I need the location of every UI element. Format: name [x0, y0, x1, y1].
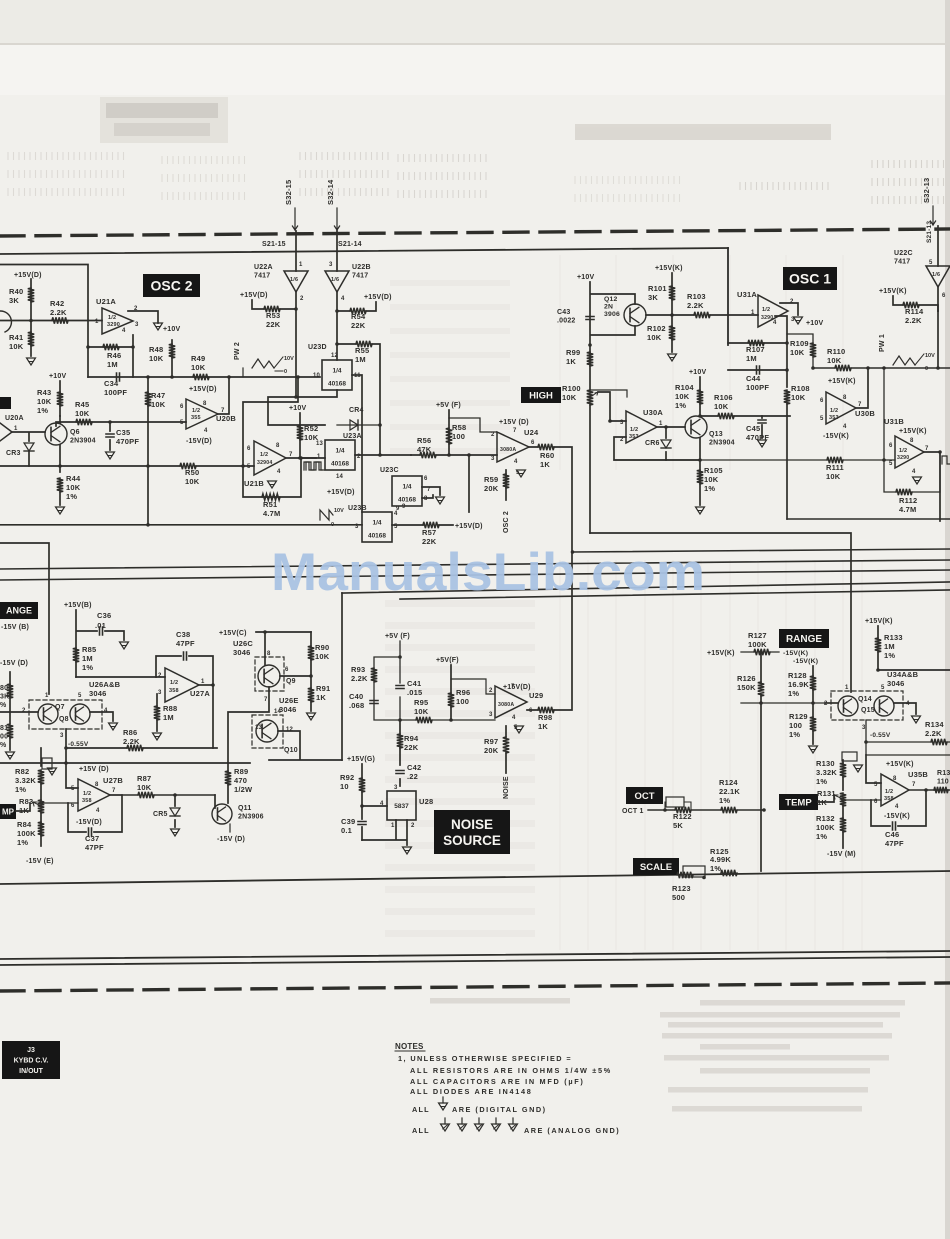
resistor R98: [538, 707, 554, 713]
svg-text:7417: 7417: [352, 273, 368, 280]
svg-text:CR3: CR3: [6, 450, 21, 457]
svg-text:3K: 3K: [9, 296, 19, 305]
svg-text:R90: R90: [315, 643, 329, 652]
resistor R124: [721, 807, 737, 813]
svg-text:R123: R123: [672, 884, 691, 893]
wire U35B pin6 node: [843, 799, 881, 801]
svg-text:R134: R134: [925, 720, 944, 729]
wire R100 wiper to U30A: [598, 392, 626, 421]
long bus wire L5: [400, 590, 950, 599]
op-amp U21B: [254, 441, 286, 475]
svg-text:1/2W: 1/2W: [234, 785, 253, 794]
svg-text:6: 6: [529, 708, 533, 714]
svg-text:C41: C41: [407, 679, 421, 688]
svg-text:+10V: +10V: [577, 274, 594, 281]
wire U30A out to Q13 base: [657, 426, 685, 428]
svg-text:2: 2: [790, 299, 794, 305]
op-amp U30A: [626, 411, 657, 443]
svg-text:2.2K: 2.2K: [687, 301, 704, 310]
svg-text:3080A: 3080A: [498, 702, 514, 708]
svg-text:C34: C34: [104, 379, 119, 388]
svg-text:2: 2: [620, 437, 624, 443]
op-amp U35B: [881, 774, 909, 806]
wire +5V(F) to U29 pin2: [451, 679, 495, 694]
ground below C35: [106, 452, 115, 459]
svg-text:1%: 1%: [66, 492, 77, 501]
svg-text:1/2: 1/2: [762, 307, 770, 313]
svg-text:+15V(D): +15V(D): [189, 386, 217, 393]
resistor R128: [812, 666, 814, 703]
trimpot slider box R83: [42, 758, 52, 769]
svg-text:ARE (ANALOG GND): ARE (ANALOG GND): [524, 1126, 620, 1135]
svg-text:13: 13: [255, 725, 263, 731]
wire Q9 pin6 to R90R91: [280, 675, 311, 677]
svg-text:R87: R87: [137, 774, 151, 783]
svg-text:OSC 2: OSC 2: [503, 511, 510, 533]
svg-text:C44: C44: [746, 374, 761, 383]
svg-text:U28: U28: [419, 797, 433, 806]
svg-text:R130: R130: [816, 759, 835, 768]
svg-text:10K: 10K: [414, 707, 429, 716]
wire Q14Q15 emitter down: [866, 720, 950, 755]
svg-text:R84: R84: [17, 820, 32, 829]
svg-text:4: 4: [122, 328, 126, 334]
svg-text:10K: 10K: [827, 356, 842, 365]
op-amp U24: [497, 432, 529, 462]
svg-text:U27A: U27A: [190, 689, 210, 698]
svg-text:22K: 22K: [351, 321, 366, 330]
IC U23A: [325, 440, 355, 470]
wire R100 bottom to line A: [590, 533, 851, 692]
svg-text:ALL: ALL: [412, 1126, 430, 1135]
wire Q15 pin4 to gnd: [894, 703, 916, 714]
wire oct row: [648, 809, 764, 811]
svg-text:1: 1: [201, 679, 205, 685]
svg-text:47PF: 47PF: [176, 639, 195, 648]
svg-text:R88: R88: [163, 704, 177, 713]
svg-text:R100: R100: [562, 384, 581, 393]
svg-text:1/6: 1/6: [932, 272, 940, 278]
svg-text:CR6: CR6: [645, 440, 660, 447]
svg-text:NOISE: NOISE: [451, 817, 493, 832]
resistor R52: [299, 413, 301, 458]
transistor Q7: [38, 704, 58, 724]
svg-text:100K: 100K: [17, 829, 36, 838]
resistor R85: [73, 648, 79, 662]
svg-text:+15V(K): +15V(K): [886, 761, 914, 768]
svg-text:SOURCE: SOURCE: [443, 833, 501, 848]
svg-text:U26E: U26E: [279, 696, 299, 705]
label box TEMP right: [779, 794, 818, 810]
svg-text:%: %: [0, 742, 7, 749]
svg-text:MP: MP: [2, 807, 15, 816]
svg-text:U34A&B: U34A&B: [887, 670, 919, 679]
svg-text:R103: R103: [687, 292, 706, 301]
svg-text:R124: R124: [719, 778, 738, 787]
svg-text:1/2: 1/2: [170, 680, 178, 686]
svg-text:U27B: U27B: [103, 776, 123, 785]
capacitor C42: [396, 771, 404, 774]
svg-text:13: 13: [316, 441, 324, 447]
svg-text:U23B: U23B: [348, 505, 367, 512]
svg-text:4: 4: [843, 424, 847, 430]
wire C34 row: [88, 376, 148, 378]
svg-text:100: 100: [456, 697, 469, 706]
svg-text:R41: R41: [9, 333, 23, 342]
svg-text:10K: 10K: [137, 783, 152, 792]
triangle wave glyph left of U23D: [252, 359, 274, 368]
ground at U23C: [436, 497, 445, 504]
svg-text:R58: R58: [452, 423, 466, 432]
svg-text:10K: 10K: [714, 402, 729, 411]
wire to U24 pin2: [449, 418, 497, 432]
svg-text:4: 4: [912, 469, 916, 475]
svg-text:R85: R85: [82, 645, 96, 654]
svg-text:10V: 10V: [334, 508, 344, 514]
svg-text:1%: 1%: [788, 689, 799, 698]
capacitor C43: [586, 317, 594, 320]
svg-text:8: 8: [424, 496, 428, 502]
resistor R103: [694, 312, 710, 318]
svg-text:1%: 1%: [37, 406, 48, 415]
resistor R95: [416, 717, 432, 723]
svg-text:OSC 1: OSC 1: [789, 271, 831, 287]
svg-text:1%: 1%: [816, 832, 827, 841]
svg-text:358: 358: [884, 796, 894, 802]
resistor R101: [669, 286, 675, 300]
svg-text:5: 5: [881, 685, 885, 691]
op-amp U31B: [895, 436, 924, 468]
svg-text:6: 6: [247, 446, 251, 452]
diode CR5: [174, 795, 176, 827]
svg-text:U29: U29: [529, 691, 543, 700]
svg-text:-15V (D): -15V (D): [0, 660, 28, 667]
svg-text:2: 2: [489, 688, 493, 694]
svg-text:22.1K: 22.1K: [719, 787, 740, 796]
svg-text:.0022: .0022: [557, 318, 576, 325]
svg-text:5: 5: [889, 461, 893, 467]
svg-text:R83: R83: [19, 797, 33, 806]
svg-text:10: 10: [313, 373, 321, 379]
resistor R80 partial: [9, 672, 11, 723]
svg-text:C39: C39: [341, 817, 355, 826]
svg-text:U21A: U21A: [96, 297, 116, 306]
svg-text:R107: R107: [746, 345, 765, 354]
svg-text:3K: 3K: [648, 293, 658, 302]
svg-text:1/2: 1/2: [108, 315, 116, 321]
svg-text:R125: R125: [710, 847, 729, 856]
resistor R99: [589, 345, 591, 390]
svg-text:3: 3: [620, 420, 624, 426]
svg-text:10K: 10K: [315, 652, 330, 661]
svg-text:-15V(D): -15V(D): [186, 438, 212, 445]
svg-text:10K: 10K: [791, 393, 806, 402]
svg-text:Q6: Q6: [70, 429, 80, 436]
label box TEMP left partial: [0, 804, 16, 819]
svg-text:3K: 3K: [0, 694, 9, 701]
svg-text:3906: 3906: [604, 311, 620, 318]
ground below R102: [668, 354, 677, 361]
svg-text:.068: .068: [349, 701, 364, 710]
svg-text:10K: 10K: [790, 348, 805, 357]
svg-text:CR5: CR5: [153, 811, 168, 818]
svg-text:R109: R109: [790, 339, 809, 348]
svg-text:1%: 1%: [82, 663, 93, 672]
svg-text:U20A: U20A: [5, 415, 24, 422]
svg-text:10K: 10K: [66, 483, 81, 492]
svg-text:+15V(D): +15V(D): [503, 684, 531, 691]
svg-text:U26A&B: U26A&B: [89, 680, 121, 689]
svg-text:-0.55V: -0.55V: [68, 741, 89, 748]
wire into Q7 pin2: [0, 711, 38, 713]
svg-text:2.2K: 2.2K: [50, 308, 67, 317]
label box SCALE: [633, 858, 679, 875]
svg-text:1/2: 1/2: [630, 427, 638, 433]
svg-text:7: 7: [513, 428, 517, 434]
svg-text:1/2: 1/2: [885, 789, 893, 795]
svg-text:32904: 32904: [257, 460, 272, 466]
transistor Q12: [624, 304, 646, 326]
wire range top corner: [0, 543, 49, 694]
diode CR6: [665, 427, 667, 460]
top dashed sheet border: [0, 229, 950, 236]
resistor R86: [127, 745, 143, 751]
svg-text:7417: 7417: [894, 259, 910, 266]
svg-text:3: 3: [158, 690, 162, 696]
svg-text:U21B: U21B: [244, 479, 264, 488]
svg-text:3046: 3046: [887, 679, 905, 688]
IC U28: [387, 791, 416, 820]
ground below R88: [153, 733, 162, 740]
svg-text:R104: R104: [675, 383, 694, 392]
svg-text:7: 7: [289, 452, 293, 458]
svg-text:C42: C42: [407, 763, 421, 772]
svg-text:9: 9: [402, 504, 406, 510]
svg-text:6: 6: [285, 667, 289, 673]
svg-text:+10V: +10V: [289, 405, 306, 412]
svg-text:470: 470: [234, 776, 247, 785]
svg-text:2: 2: [491, 432, 495, 438]
svg-text:5: 5: [180, 420, 184, 426]
ground right of Q15: [912, 716, 921, 723]
svg-text:1: 1: [14, 426, 18, 432]
svg-text:R101: R101: [648, 284, 667, 293]
resistor R45: [76, 419, 92, 425]
svg-text:1: 1: [659, 421, 663, 427]
svg-text:J3: J3: [27, 1047, 35, 1054]
svg-text:3: 3: [135, 322, 139, 328]
svg-text:1/4: 1/4: [402, 484, 411, 491]
svg-text:R46: R46: [107, 351, 121, 360]
resistor R51 feedback: [243, 458, 301, 497]
wire U22C vertical: [937, 226, 939, 311]
svg-text:500: 500: [672, 893, 685, 902]
svg-text:10K: 10K: [37, 397, 52, 406]
trimpot R83: [38, 800, 44, 813]
wire into U23A pin1: [299, 457, 325, 459]
op-amp U29: [495, 686, 527, 718]
svg-text:8: 8: [276, 443, 280, 449]
svg-text:1: 1: [45, 693, 49, 699]
svg-text:353: 353: [629, 434, 639, 440]
resistor R94: [399, 720, 401, 786]
svg-text:1%: 1%: [719, 796, 730, 805]
svg-text:10K: 10K: [191, 363, 206, 372]
svg-text:1%: 1%: [884, 651, 895, 660]
svg-text:ANGE: ANGE: [6, 606, 32, 616]
svg-text:R47: R47: [151, 391, 165, 400]
resistor R108: [784, 390, 790, 404]
resistor R110: [835, 365, 851, 371]
svg-text:+15V(K): +15V(K): [707, 650, 735, 657]
ghost stamp bleed-through top-left: [100, 97, 228, 143]
svg-text:Q15: Q15: [861, 707, 875, 714]
svg-text:S21-15: S21-15: [262, 241, 286, 248]
svg-text:5: 5: [71, 786, 75, 792]
svg-text:00: 00: [0, 734, 8, 741]
svg-text:R97: R97: [484, 737, 498, 746]
svg-text:1%: 1%: [17, 838, 28, 847]
svg-text:R93: R93: [351, 665, 365, 674]
svg-text:Q14: Q14: [858, 696, 872, 703]
svg-text:3046: 3046: [233, 648, 251, 657]
svg-text:7: 7: [858, 402, 862, 408]
capacitor C36: [76, 610, 124, 677]
svg-text:1/6: 1/6: [290, 277, 298, 283]
svg-text:Q11: Q11: [238, 805, 251, 812]
resistor R88: [156, 694, 158, 731]
svg-text:1%: 1%: [710, 864, 721, 873]
ground arrow near R130: [854, 765, 863, 772]
resistor R44: [57, 478, 63, 492]
op-amp U30B: [826, 392, 856, 424]
svg-text:-15V (M): -15V (M): [827, 851, 856, 858]
ghost connector-table digits rows: [8, 152, 124, 196]
wire Q13 emitter down: [699, 438, 701, 505]
svg-text:10K: 10K: [675, 392, 690, 401]
resistor R130: [842, 760, 844, 790]
wire U21B pin6 riser: [243, 377, 298, 466]
svg-text:+15V(D): +15V(D): [364, 294, 392, 301]
svg-text:5K: 5K: [673, 821, 683, 830]
wire Q10 to noise net: [269, 731, 342, 760]
svg-text:4: 4: [895, 804, 899, 810]
svg-text:R59: R59: [484, 475, 498, 484]
svg-text:Q8: Q8: [59, 716, 69, 723]
svg-text:5: 5: [78, 693, 82, 699]
svg-text:U31B: U31B: [884, 417, 904, 426]
svg-text:OSC 2: OSC 2: [150, 278, 192, 294]
svg-text:150K: 150K: [737, 683, 756, 692]
capacitor C34: [117, 373, 120, 381]
svg-text:7: 7: [912, 782, 916, 788]
svg-text:1K: 1K: [566, 357, 576, 366]
svg-text:+15V(B): +15V(B): [64, 602, 92, 609]
wire Q12 output row: [646, 314, 758, 316]
resistor R96: [450, 665, 452, 720]
svg-text:C38: C38: [176, 630, 190, 639]
wire R85 bottom to U27A: [76, 676, 165, 678]
svg-text:1%: 1%: [675, 401, 686, 410]
svg-text:110: 110: [937, 779, 949, 786]
svg-text:Q12: Q12: [604, 296, 617, 303]
resistor R134: [931, 739, 947, 745]
ramp wave glyph left of U23B: [320, 510, 333, 520]
resistor R56: [411, 454, 497, 456]
svg-text:R96: R96: [456, 688, 470, 697]
svg-text:1/2: 1/2: [830, 408, 838, 414]
svg-text:353: 353: [829, 415, 839, 421]
svg-text:16.9K: 16.9K: [788, 680, 809, 689]
svg-text:3: 3: [329, 262, 333, 268]
trimpot R131: [840, 793, 846, 806]
diode CR4: [337, 424, 380, 426]
svg-text:3: 3: [60, 733, 64, 739]
label box RANGE left: [0, 602, 38, 619]
ghost table centre bleed-through: [560, 255, 862, 950]
trimpot slider box R130: [842, 752, 857, 761]
svg-text:4: 4: [104, 708, 108, 714]
wire +5V down: [374, 641, 400, 720]
svg-text:R128: R128: [788, 671, 807, 680]
svg-text:22K: 22K: [404, 743, 419, 752]
svg-text:-15V (B): -15V (B): [1, 624, 29, 631]
svg-text:1/4: 1/4: [332, 368, 341, 375]
resistor R104: [697, 390, 703, 404]
svg-text:1/2: 1/2: [260, 452, 268, 458]
svg-text:4: 4: [96, 808, 100, 814]
svg-text:HIGH: HIGH: [529, 390, 553, 401]
svg-text:1M: 1M: [355, 355, 366, 364]
svg-text:+15V(K): +15V(K): [899, 428, 927, 435]
svg-text:4.7M: 4.7M: [899, 505, 916, 514]
wire vertical x761 down: [760, 703, 762, 871]
dashed box Q9: [255, 657, 284, 691]
svg-text:2N3904: 2N3904: [709, 440, 735, 447]
transistor Q8: [70, 704, 90, 724]
resistor R112 feedback: [884, 452, 940, 492]
svg-text:U30A: U30A: [643, 408, 663, 417]
wire Q9 pin7 to R89: [228, 687, 269, 763]
wire R127 row: [741, 651, 779, 653]
resistor R92: [361, 764, 363, 806]
resistor R102: [671, 315, 673, 352]
buffer U22B: [325, 271, 349, 292]
svg-text:1M: 1M: [107, 360, 118, 369]
wire Q6 collector row R45: [56, 422, 110, 426]
resistor R60: [538, 444, 554, 450]
resistor R105: [697, 470, 703, 484]
IC U23B: [362, 512, 392, 542]
svg-text:80: 80: [0, 685, 8, 692]
wire U27B out R87: [122, 794, 215, 796]
svg-text:+15V(G): +15V(G): [347, 756, 375, 763]
svg-text:+5V (F): +5V (F): [385, 633, 410, 640]
svg-text:6: 6: [424, 476, 428, 482]
transistor Q10: [256, 720, 278, 742]
svg-text:R86: R86: [123, 728, 137, 737]
svg-text:.015: .015: [407, 688, 422, 697]
svg-text:1: 1: [391, 823, 395, 829]
svg-text:C37: C37: [85, 834, 99, 843]
svg-text:8: 8: [203, 401, 207, 407]
wire U23C pin7 to gnd: [422, 487, 440, 498]
svg-text:10K: 10K: [151, 400, 166, 409]
svg-text:5: 5: [929, 260, 933, 266]
svg-text:7: 7: [221, 408, 225, 414]
wire U28 grounds: [362, 820, 407, 845]
svg-text:3046: 3046: [89, 689, 107, 698]
